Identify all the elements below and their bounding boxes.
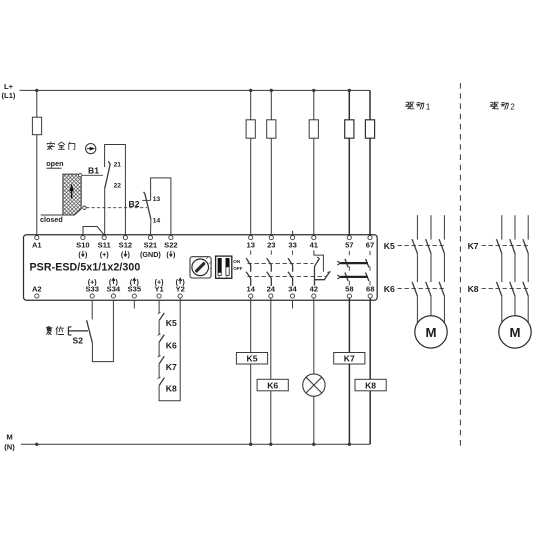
terminal 34 unconnected stub (bottom) bbox=[292, 300, 294, 308]
junction bottom rail / lamp bbox=[312, 443, 315, 446]
contactor coil K6 bbox=[257, 379, 288, 391]
dashed separator between drive 1 and drive 2 bbox=[459, 83, 461, 446]
DIP switch block (inside relay) bbox=[216, 256, 232, 278]
terminal 41 (top) bbox=[312, 236, 316, 240]
fuse (terminal 67 branch) bbox=[365, 120, 374, 138]
relay contact 23-24 (double-break NO) bbox=[270, 250, 272, 257]
junction top rail / 13 column bbox=[249, 89, 252, 92]
svg-text:K5: K5 bbox=[247, 354, 258, 364]
terminal 42 (bottom) bbox=[312, 294, 316, 298]
svg-text:(+): (+) bbox=[88, 277, 98, 286]
terminal A1 (top) bbox=[35, 236, 39, 240]
terminal 14 (bottom) bbox=[249, 294, 253, 298]
svg-text:23: 23 bbox=[267, 241, 275, 250]
wire feedback chain segment below K7 bbox=[158, 364, 160, 379]
wire supply rail corner down to terminal 67 (bold) bbox=[369, 90, 371, 235]
wire S33 down to S2 bbox=[91, 300, 93, 319]
svg-text:1: 1 bbox=[218, 275, 220, 279]
svg-text:14: 14 bbox=[153, 217, 161, 224]
door hinge pivot top bbox=[79, 174, 82, 177]
wire S2 to S34 (U path) bbox=[92, 300, 113, 361]
wire terminal 24 to K6 coil bbox=[270, 298, 272, 379]
feedback contact K8 (auxiliary mirror contact) bbox=[158, 377, 161, 379]
terminal 57 (top) bbox=[347, 236, 351, 240]
svg-text:K5: K5 bbox=[384, 241, 395, 251]
terminal 33 unconnected stub (top) bbox=[292, 231, 294, 236]
svg-text:K7: K7 bbox=[344, 354, 355, 364]
contactor coil K7 bbox=[334, 353, 365, 365]
svg-text:(GND): (GND) bbox=[140, 250, 161, 259]
svg-text:2: 2 bbox=[510, 103, 515, 112]
drive 2 phase line 1 bbox=[501, 215, 503, 239]
reset button S2 actuator bbox=[68, 327, 88, 335]
relay contact 13-14 (double-break NO) bbox=[250, 250, 252, 257]
svg-text:K5: K5 bbox=[166, 318, 177, 328]
terminal 23 (top) bbox=[269, 236, 273, 240]
mechanical link door to B2 (dashed) bbox=[86, 207, 147, 209]
contact B2 13-14 fixed seat bbox=[142, 199, 150, 201]
fuse (terminal 13 branch) bbox=[246, 120, 255, 138]
relay contact group 57-58 / 67-68 (delayed, force-guided bars) bbox=[348, 251, 350, 286]
actuation direction icon (circle with arrow) bbox=[86, 144, 96, 154]
svg-text:K6: K6 bbox=[384, 284, 395, 294]
label closed (door closed position) bbox=[41, 214, 63, 216]
svg-text:M: M bbox=[510, 325, 521, 340]
drive 1 contactor contact upper pole 3 bbox=[439, 239, 444, 254]
svg-text:22: 22 bbox=[114, 183, 122, 190]
drive 2 contactor contact lower pole 2 bbox=[510, 282, 515, 297]
svg-text:B2: B2 bbox=[129, 199, 140, 209]
force-guide bar upper bbox=[340, 262, 367, 264]
svg-text:57: 57 bbox=[345, 241, 353, 250]
wire supply drop to terminal 57 (bold) bbox=[348, 90, 350, 235]
fuse (terminal 41 branch) bbox=[309, 120, 318, 138]
drive 1 phase line 2 bbox=[430, 215, 432, 239]
contact B2 13-14 moving arm bbox=[144, 192, 151, 220]
contactor coil K5 bbox=[236, 353, 267, 365]
terminal Y1 (bottom) bbox=[157, 294, 161, 298]
wire supply drop to terminal 23 bbox=[270, 90, 272, 235]
relay contact linkage (lower, dashed) bbox=[248, 276, 326, 278]
wire feedback chain segment below K6 bbox=[158, 342, 160, 357]
wire bottom return rail M/N bbox=[21, 443, 370, 445]
terminal 13 (top) bbox=[249, 236, 253, 240]
drive 1 contactor contact lower pole 2 bbox=[426, 282, 431, 297]
label 驱动 1 (drive 1) bbox=[406, 102, 414, 109]
feedback contact K7 (auxiliary mirror contact) bbox=[158, 356, 161, 358]
drive 1 contactor contact upper pole 2 bbox=[426, 239, 431, 254]
wire supply drop to terminal 41 bbox=[313, 90, 315, 235]
svg-text:S2: S2 bbox=[73, 336, 84, 346]
junction top rail / 57 column bbox=[348, 89, 351, 92]
contact S2 (NO push button) moving arm bbox=[87, 320, 93, 343]
svg-text:(L1): (L1) bbox=[2, 91, 16, 100]
terminal 67 (top) bbox=[368, 236, 372, 240]
terminal S10 (top) bbox=[81, 236, 85, 240]
terminal 34 (bottom) bbox=[290, 294, 294, 298]
terminal 68 (bottom) bbox=[368, 294, 372, 298]
terminal S33 (bottom) bbox=[90, 294, 94, 298]
terminal A2 (bottom) bbox=[35, 294, 39, 298]
label 复位 (reset) bbox=[46, 326, 52, 334]
svg-text:L+: L+ bbox=[4, 82, 14, 91]
relay contact linkage (upper, dashed) bbox=[248, 262, 314, 264]
wire K8 coil to bottom rail (bold) bbox=[369, 391, 371, 445]
drive 1 contactor contact lower pole 1 bbox=[412, 282, 417, 297]
junction top rail / A1 column bbox=[35, 89, 38, 92]
fuse F1 (A1 branch) bbox=[32, 117, 41, 135]
safety door symbol (hatched) bbox=[63, 174, 81, 215]
svg-text:closed: closed bbox=[40, 215, 63, 224]
label 驱动 2 (drive 2) bbox=[490, 102, 498, 109]
svg-text:M: M bbox=[6, 433, 12, 442]
motor M (drive 2) bbox=[499, 316, 531, 348]
svg-text:K8: K8 bbox=[365, 380, 376, 390]
svg-text:S12: S12 bbox=[119, 241, 133, 250]
drive 2 phase line 2 bbox=[514, 215, 516, 239]
svg-text:open: open bbox=[46, 159, 63, 168]
terminal 24 (bottom) bbox=[269, 294, 273, 298]
drive 1 contactor contact lower pole 3 bbox=[439, 282, 444, 297]
motor M (drive 1) bbox=[415, 316, 447, 348]
terminal 58 (bottom) bbox=[347, 294, 351, 298]
terminal S22 (top) bbox=[169, 236, 173, 240]
svg-text:58: 58 bbox=[345, 285, 353, 294]
terminal S11 (top) bbox=[102, 236, 106, 240]
drive 2 contactor contact lower pole 3 bbox=[523, 282, 528, 297]
svg-text:S21: S21 bbox=[144, 241, 158, 250]
svg-text:K8: K8 bbox=[166, 384, 177, 394]
feedback contact K6 (auxiliary mirror contact) bbox=[158, 334, 161, 336]
terminal Y2 (bottom) bbox=[178, 294, 182, 298]
drive 2 contactor contact upper pole 3 bbox=[523, 239, 528, 254]
contact B1 21-22 moving arm bbox=[105, 161, 111, 188]
svg-text:K6: K6 bbox=[267, 380, 278, 390]
safety relay PSR-ESD/5x1/1x2/300 body bbox=[24, 235, 378, 301]
junction top rail / 41 column bbox=[312, 89, 315, 92]
drive 2 phase line 3 bbox=[527, 215, 529, 239]
relay contact 33-34 (double-break NO) bbox=[292, 250, 294, 257]
wire terminal 14 to K5 coil bbox=[250, 298, 252, 352]
junction bottom rail / K6 coil bbox=[269, 443, 272, 446]
svg-text:M: M bbox=[426, 325, 437, 340]
wire terminal 58 to K7 coil (bold) bbox=[348, 298, 350, 352]
wire top supply rail L+ bbox=[20, 89, 371, 91]
junction bottom rail / K5 coil bbox=[249, 443, 252, 446]
svg-text:K6: K6 bbox=[166, 341, 177, 351]
indicator lamp H1 bbox=[303, 374, 325, 396]
jumper wire S10 to S11 bbox=[83, 227, 104, 236]
wire Y1 down to feedback chain bbox=[158, 300, 160, 313]
svg-text:13: 13 bbox=[153, 196, 161, 203]
drive 1 contactor contact upper pole 1 bbox=[412, 239, 417, 254]
door movement arrow bbox=[71, 189, 73, 198]
wire B1 arm down to S11 bbox=[104, 189, 106, 236]
feedback contact K5 (auxiliary mirror contact) bbox=[158, 312, 161, 314]
svg-text:ON: ON bbox=[233, 259, 241, 264]
door pivot at B2 link bbox=[83, 206, 86, 209]
terminal S35 unconnected stub (bottom) bbox=[133, 300, 135, 308]
wire K5 coil to bottom rail bbox=[250, 364, 252, 444]
terminal S34 (bottom) bbox=[111, 294, 115, 298]
svg-text:21: 21 bbox=[114, 162, 122, 169]
drive 1 phase line 1 bbox=[416, 215, 418, 239]
svg-text:OFF: OFF bbox=[233, 266, 242, 271]
svg-text:33: 33 bbox=[288, 241, 296, 250]
svg-text:42: 42 bbox=[310, 285, 318, 294]
svg-text:S11: S11 bbox=[98, 241, 112, 250]
drive 2 contactor contact lower pole 1 bbox=[497, 282, 502, 297]
wire K6 coil to bottom rail bbox=[270, 391, 272, 445]
relay contact 41-42 (NC, force-guided) bbox=[314, 250, 324, 271]
svg-text:K8: K8 bbox=[468, 284, 479, 294]
svg-text:13: 13 bbox=[246, 241, 254, 250]
force-guide bar lower bbox=[340, 276, 367, 278]
svg-text:S10: S10 bbox=[76, 241, 90, 250]
svg-text:(N): (N) bbox=[4, 442, 15, 451]
fuse (terminal 57 branch) bbox=[345, 120, 354, 138]
wire terminal 68 to K8 coil (bold) bbox=[369, 298, 371, 379]
svg-text:S22: S22 bbox=[164, 241, 178, 250]
wire feedback chain segment below K5 bbox=[158, 320, 160, 335]
svg-text:A1: A1 bbox=[32, 241, 42, 250]
terminal S35 (bottom) bbox=[132, 294, 136, 298]
svg-text:68: 68 bbox=[366, 285, 374, 294]
svg-text:2: 2 bbox=[226, 275, 228, 279]
terminal S21 (top) bbox=[148, 236, 152, 240]
junction top rail / 23 column bbox=[270, 89, 273, 92]
svg-text:B1: B1 bbox=[88, 166, 99, 176]
junction bottom rail / A2 bbox=[35, 443, 38, 446]
svg-text:1: 1 bbox=[426, 103, 431, 112]
svg-text:K7: K7 bbox=[468, 241, 479, 251]
wire K8 to Y2 (U path) bbox=[159, 298, 180, 401]
svg-text:K7: K7 bbox=[166, 362, 177, 372]
svg-text:A2: A2 bbox=[32, 285, 42, 294]
terminal 33 (top) bbox=[291, 236, 295, 240]
svg-text:(+): (+) bbox=[155, 277, 165, 286]
drive 2 contactor contact upper pole 1 bbox=[497, 239, 502, 254]
mechanical link door to B1 bbox=[82, 174, 103, 176]
rotary mode selector switch (inside relay) bbox=[190, 257, 211, 278]
junction bottom rail / K7 coil bbox=[348, 443, 351, 446]
drive 2 contactor contact upper pole 2 bbox=[510, 239, 515, 254]
svg-text:41: 41 bbox=[310, 241, 319, 250]
wire S22 loop up-over to B2 fixed contact bbox=[151, 178, 171, 235]
wire terminal 42 to indicator lamp bbox=[313, 298, 315, 374]
terminal S12 (top) bbox=[123, 236, 127, 240]
drive 1 phase line 3 bbox=[443, 215, 445, 239]
svg-text:67: 67 bbox=[366, 241, 374, 250]
wire A1 supply drop bbox=[36, 90, 38, 235]
wire S12 loop up-over to B1 fixed contact bbox=[105, 145, 126, 236]
svg-text:(+): (+) bbox=[100, 250, 110, 259]
wire B2 arm down to S21 bbox=[150, 219, 152, 235]
label 安全门 (safety door) bbox=[47, 142, 54, 150]
contactor coil K8 bbox=[355, 379, 386, 391]
fuse (terminal 23 branch) bbox=[267, 120, 276, 138]
wire K7 coil to bottom rail (bold) bbox=[348, 364, 350, 444]
wire supply drop to terminal 13 bbox=[250, 90, 252, 235]
wire lamp to bottom rail bbox=[313, 396, 315, 444]
svg-text:PSR-ESD/5x1/1x2/300: PSR-ESD/5x1/1x2/300 bbox=[30, 262, 141, 274]
